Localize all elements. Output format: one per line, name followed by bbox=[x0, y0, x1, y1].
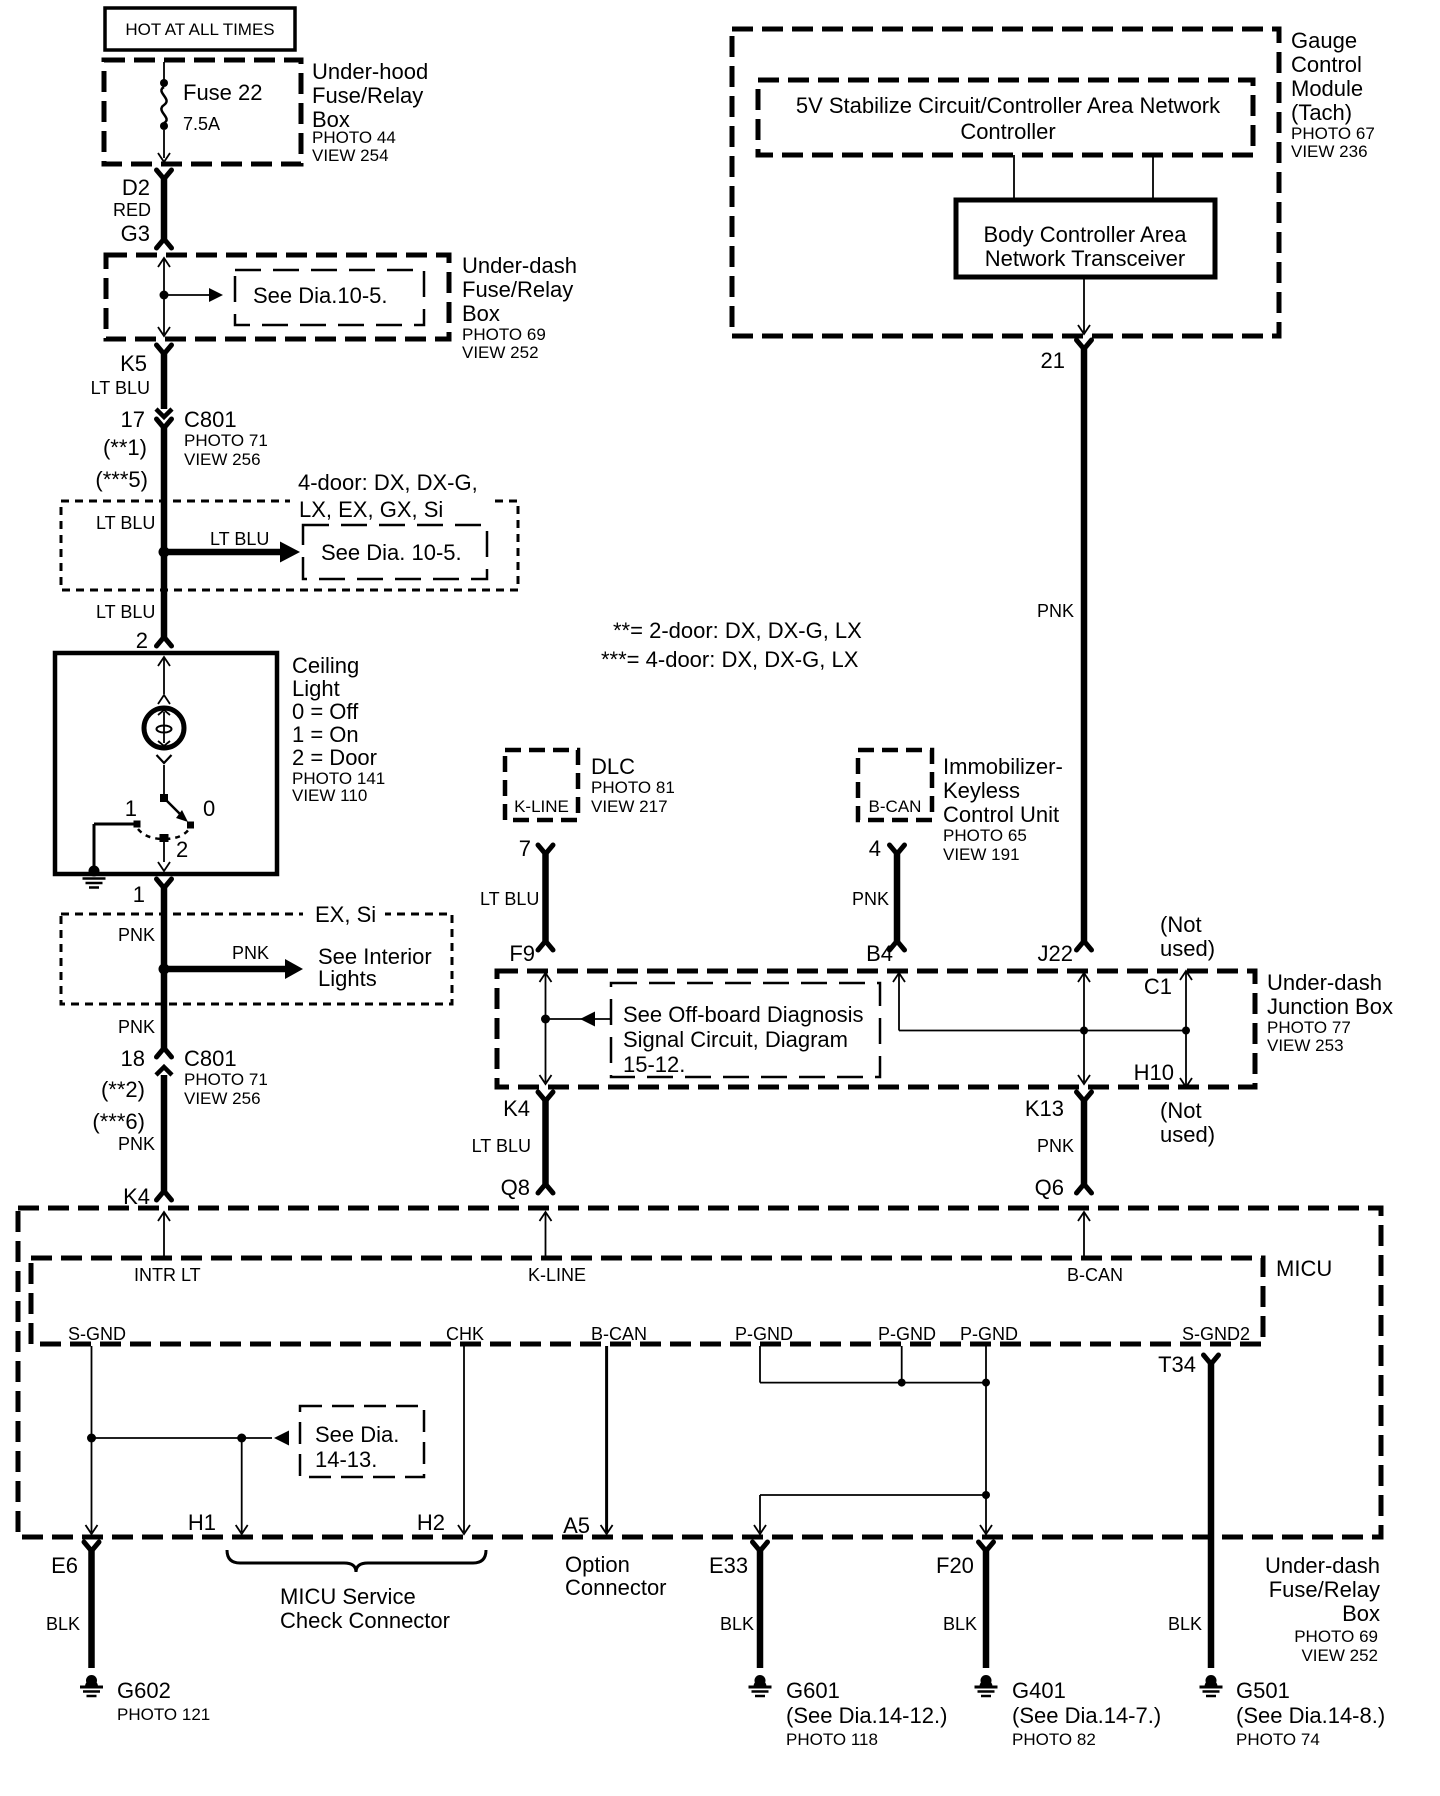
svg-text:Immobilizer-: Immobilizer- bbox=[943, 754, 1063, 779]
svg-text:J22: J22 bbox=[1038, 941, 1073, 966]
svg-text:See Dia.10-5.: See Dia.10-5. bbox=[253, 283, 388, 308]
node at J22 wire bbox=[1080, 1027, 1088, 1035]
MICU box (dashed) bbox=[31, 1258, 1263, 1344]
wire inside under-dash box bbox=[158, 258, 170, 267]
svg-text:LT BLU: LT BLU bbox=[210, 529, 269, 549]
svg-text:VIEW 236: VIEW 236 bbox=[1291, 142, 1368, 161]
svg-text:7.5A: 7.5A bbox=[183, 114, 220, 134]
svg-text:2: 2 bbox=[136, 628, 148, 653]
svg-text:B-CAN: B-CAN bbox=[591, 1324, 647, 1344]
svg-text:MICU: MICU bbox=[1276, 1256, 1332, 1281]
branch arrow LT BLU to See Dia. 10-5. bbox=[164, 549, 280, 556]
svg-text:Option: Option bbox=[565, 1552, 630, 1577]
svg-text:B-CAN: B-CAN bbox=[869, 797, 922, 816]
node P-GND 2 junction bbox=[898, 1379, 906, 1387]
svg-text:See Off-board Diagnosis: See Off-board Diagnosis bbox=[623, 1002, 864, 1027]
switch position 1 wire to internal ground bbox=[94, 823, 137, 826]
node F20 branch bbox=[982, 1491, 990, 1499]
svg-text:F9: F9 bbox=[509, 941, 535, 966]
MICU service check connector brace bbox=[227, 1550, 486, 1572]
svg-text:(Not: (Not bbox=[1160, 1098, 1202, 1123]
svg-text:1: 1 bbox=[125, 796, 137, 821]
wire pin1 PNK below ceiling light bbox=[157, 879, 172, 888]
svg-text:E6: E6 bbox=[51, 1553, 78, 1578]
svg-text:A5: A5 bbox=[563, 1513, 590, 1538]
J22 wire through junction box bbox=[1078, 973, 1090, 982]
K-LINE wire through junction box bbox=[540, 973, 552, 982]
B4 wire inside junction box bbox=[893, 973, 905, 982]
svg-text:4: 4 bbox=[869, 836, 881, 861]
reference box See Dia. 14-13. bbox=[300, 1406, 424, 1477]
svg-text:H10: H10 bbox=[1134, 1060, 1174, 1085]
svg-text:Ceiling: Ceiling bbox=[292, 653, 359, 678]
svg-text:C1: C1 bbox=[1144, 974, 1172, 999]
svg-text:G3: G3 bbox=[121, 221, 150, 246]
svg-text:Keyless: Keyless bbox=[943, 778, 1020, 803]
svg-text:G602: G602 bbox=[117, 1678, 171, 1703]
svg-text:PNK: PNK bbox=[232, 943, 269, 963]
ground G401 bbox=[981, 1675, 992, 1686]
svg-text:(***5): (***5) bbox=[95, 467, 148, 492]
svg-text:Lights: Lights bbox=[318, 966, 377, 991]
under-dash fuse/relay box lower (big dashed) bbox=[18, 1208, 1381, 1537]
wire P-GND 2 bbox=[901, 1346, 903, 1383]
wire K4-Q8 LT BLU bbox=[538, 1092, 553, 1101]
svg-text:Under-dash: Under-dash bbox=[1267, 970, 1382, 995]
svg-text:Fuse/Relay: Fuse/Relay bbox=[462, 277, 573, 302]
svg-text:HOT AT ALL TIMES: HOT AT ALL TIMES bbox=[125, 20, 274, 39]
EX Si option box (dotted) bbox=[61, 914, 452, 1004]
svg-text:PHOTO 82: PHOTO 82 bbox=[1012, 1730, 1096, 1749]
node K-LINE junction bbox=[541, 1015, 550, 1024]
svg-text:BLK: BLK bbox=[1168, 1614, 1202, 1634]
wire transceiver to pin 21 bbox=[1083, 277, 1085, 332]
svg-text:Box: Box bbox=[462, 301, 500, 326]
svg-text:P-GND: P-GND bbox=[735, 1324, 793, 1344]
svg-text:BLK: BLK bbox=[46, 1614, 80, 1634]
immobilizer-keyless control unit box (dashed) bbox=[858, 750, 932, 820]
svg-text:MICU Service: MICU Service bbox=[280, 1584, 416, 1609]
wire B-CAN to A5 option connector bbox=[605, 1346, 608, 1532]
svg-text:Q8: Q8 bbox=[501, 1175, 530, 1200]
svg-text:PHOTO 71: PHOTO 71 bbox=[184, 431, 268, 450]
wire K4 to MICU INTR LT bbox=[158, 1212, 170, 1221]
svg-text:K-LINE: K-LINE bbox=[528, 1265, 586, 1285]
5V stabilize circuit / CAN controller box (dashed) bbox=[758, 80, 1253, 155]
svg-text:LT BLU: LT BLU bbox=[480, 889, 539, 909]
svg-text:K5: K5 bbox=[120, 351, 147, 376]
svg-text:EX, Si: EX, Si bbox=[315, 902, 376, 927]
wire Q6 to MICU B-CAN bbox=[1078, 1212, 1090, 1221]
svg-text:Gauge: Gauge bbox=[1291, 28, 1357, 53]
under-hood fuse/relay box (dashed) bbox=[104, 60, 301, 164]
svg-text:PHOTO 71: PHOTO 71 bbox=[184, 1070, 268, 1089]
branch wire to See Dia 14-13 bbox=[92, 1437, 273, 1439]
junction box internal bus wire bbox=[899, 1030, 1186, 1032]
svg-text:VIEW 253: VIEW 253 bbox=[1267, 1036, 1344, 1055]
svg-text:used): used) bbox=[1160, 936, 1215, 961]
svg-text:K-LINE: K-LINE bbox=[514, 797, 569, 816]
svg-text:PHOTO 121: PHOTO 121 bbox=[117, 1705, 210, 1724]
svg-text:PHOTO 118: PHOTO 118 bbox=[786, 1730, 878, 1749]
svg-text:Under-dash: Under-dash bbox=[1265, 1553, 1380, 1578]
body CAN transceiver box bbox=[956, 200, 1215, 277]
svg-text:(***6): (***6) bbox=[92, 1109, 145, 1134]
fuse 22 7.5A bbox=[163, 62, 165, 80]
svg-text:C801: C801 bbox=[184, 1046, 237, 1071]
svg-text:15-12.: 15-12. bbox=[623, 1052, 685, 1077]
svg-text:LT BLU: LT BLU bbox=[91, 378, 150, 398]
svg-text:G501: G501 bbox=[1236, 1678, 1290, 1703]
branch arrow PNK to See Interior Lights bbox=[164, 966, 285, 973]
wire D2-G3 RED bbox=[157, 170, 172, 179]
ceiling light box bbox=[55, 653, 277, 874]
svg-text:F20: F20 bbox=[936, 1553, 974, 1578]
node junction in under-dash box bbox=[160, 291, 169, 300]
svg-text:PNK: PNK bbox=[118, 1134, 155, 1154]
DLC box (dashed) bbox=[505, 750, 578, 820]
node junction LT BLU branch bbox=[159, 547, 170, 558]
svg-text:Fuse/Relay: Fuse/Relay bbox=[312, 83, 423, 108]
svg-text:14-13.: 14-13. bbox=[315, 1447, 377, 1472]
svg-text:Module: Module bbox=[1291, 76, 1363, 101]
svg-text:PHOTO 81: PHOTO 81 bbox=[591, 778, 675, 797]
svg-text:Junction Box: Junction Box bbox=[1267, 994, 1393, 1019]
svg-text:PHOTO 77: PHOTO 77 bbox=[1267, 1018, 1351, 1037]
svg-text:P-GND: P-GND bbox=[878, 1324, 936, 1344]
svg-text:Control: Control bbox=[1291, 52, 1362, 77]
svg-text:VIEW 252: VIEW 252 bbox=[1301, 1646, 1378, 1665]
svg-text:B4: B4 bbox=[866, 941, 893, 966]
wire P-GND 1 bbox=[759, 1346, 761, 1383]
svg-text:H2: H2 bbox=[417, 1510, 445, 1535]
svg-text:Network Transceiver: Network Transceiver bbox=[985, 246, 1186, 271]
H10 stub (not used) bbox=[1185, 1031, 1187, 1087]
svg-text:Light: Light bbox=[292, 676, 340, 701]
svg-text:PNK: PNK bbox=[118, 1017, 155, 1037]
svg-text:See Dia. 10-5.: See Dia. 10-5. bbox=[321, 540, 462, 565]
svg-text:G601: G601 bbox=[786, 1678, 840, 1703]
reference box See Off-board Diagnosis Signal Circuit Diagram 15-12 bbox=[611, 983, 880, 1077]
wire to H1 bbox=[241, 1438, 243, 1532]
svg-text:(**1): (**1) bbox=[103, 435, 147, 460]
C1 stub (not used) bbox=[1180, 971, 1192, 980]
wire K5-17 LT BLU bbox=[157, 345, 172, 354]
node S-GND branch bbox=[87, 1434, 96, 1443]
wire CHK to H2 bbox=[463, 1346, 465, 1532]
switch position 2 wire to pin 1 bbox=[163, 842, 165, 862]
svg-text:Box: Box bbox=[1342, 1601, 1380, 1626]
svg-text:0 = Off: 0 = Off bbox=[292, 699, 359, 724]
gauge control module box (dashed) bbox=[732, 29, 1279, 336]
svg-text:Control Unit: Control Unit bbox=[943, 802, 1059, 827]
svg-text:**= 2-door: DX, DX-G, LX: **= 2-door: DX, DX-G, LX bbox=[613, 618, 862, 643]
under-dash fuse/relay box upper (dashed) bbox=[106, 255, 449, 339]
wire to E33 bbox=[759, 1495, 761, 1532]
svg-text:PHOTO 74: PHOTO 74 bbox=[1236, 1730, 1320, 1749]
svg-text:D2: D2 bbox=[122, 175, 150, 200]
svg-text:1 = On: 1 = On bbox=[292, 722, 359, 747]
ceiling light switch bbox=[163, 765, 165, 795]
svg-text:B-CAN: B-CAN bbox=[1067, 1265, 1123, 1285]
svg-text:VIEW 252: VIEW 252 bbox=[462, 343, 539, 362]
svg-text:RED: RED bbox=[113, 200, 151, 220]
switch positions dashed arc bbox=[138, 829, 189, 839]
svg-text:VIEW 254: VIEW 254 bbox=[312, 146, 389, 165]
wire Q8 to MICU K-LINE bbox=[540, 1212, 552, 1221]
svg-text:Fuse/Relay: Fuse/Relay bbox=[1269, 1577, 1380, 1602]
svg-text:Connector: Connector bbox=[565, 1575, 667, 1600]
wire 5V box to transceiver left bbox=[1013, 155, 1015, 200]
svg-text:PHOTO 69: PHOTO 69 bbox=[462, 325, 546, 344]
svg-text:(**2): (**2) bbox=[101, 1077, 145, 1102]
svg-text:LT BLU: LT BLU bbox=[96, 513, 155, 533]
svg-text:(See Dia.14-8.): (See Dia.14-8.) bbox=[1236, 1703, 1385, 1728]
ceiling light bulb bbox=[144, 708, 184, 748]
svg-text:C801: C801 bbox=[184, 407, 237, 432]
svg-text:used): used) bbox=[1160, 1122, 1215, 1147]
svg-text:BLK: BLK bbox=[720, 1614, 754, 1634]
svg-text:LT BLU: LT BLU bbox=[472, 1136, 531, 1156]
svg-text:17: 17 bbox=[121, 407, 145, 432]
node H1 branch bbox=[237, 1434, 246, 1443]
node P-GND 3 junction bbox=[982, 1379, 990, 1387]
svg-text:Controller: Controller bbox=[960, 119, 1055, 144]
svg-text:Q6: Q6 bbox=[1035, 1175, 1064, 1200]
svg-text:E33: E33 bbox=[709, 1553, 748, 1578]
wire 21 to J22 PNK bbox=[1077, 340, 1092, 349]
svg-text:CHK: CHK bbox=[446, 1324, 484, 1344]
svg-text:***= 4-door: DX, DX-G, LX: ***= 4-door: DX, DX-G, LX bbox=[601, 647, 859, 672]
P-GND bus wire bbox=[760, 1382, 986, 1384]
svg-text:PHOTO 65: PHOTO 65 bbox=[943, 826, 1027, 845]
svg-text:(See Dia.14-12.): (See Dia.14-12.) bbox=[786, 1703, 947, 1728]
ground G601 bbox=[755, 1675, 766, 1686]
svg-text:LT BLU: LT BLU bbox=[96, 602, 155, 622]
svg-text:PHOTO 69: PHOTO 69 bbox=[1294, 1627, 1378, 1646]
svg-text:Fuse 22: Fuse 22 bbox=[183, 80, 263, 105]
svg-text:18: 18 bbox=[121, 1046, 145, 1071]
svg-text:PNK: PNK bbox=[118, 925, 155, 945]
svg-text:Body Controller Area: Body Controller Area bbox=[984, 222, 1188, 247]
svg-text:Under-hood: Under-hood bbox=[312, 59, 428, 84]
wire K13-Q6 PNK bbox=[1077, 1092, 1092, 1101]
branch arrow to See Dia.10-5. bbox=[164, 294, 209, 296]
ceiling light internal wire top bbox=[158, 657, 170, 666]
svg-text:VIEW 191: VIEW 191 bbox=[943, 845, 1020, 864]
under-dash junction box (dashed) bbox=[497, 971, 1255, 1087]
svg-text:Under-dash: Under-dash bbox=[462, 253, 577, 278]
wire to F20 bbox=[985, 1495, 987, 1532]
svg-text:PHOTO 44: PHOTO 44 bbox=[312, 128, 396, 147]
svg-text:(Tach): (Tach) bbox=[1291, 100, 1352, 125]
svg-text:4-door: DX, DX-G,: 4-door: DX, DX-G, bbox=[298, 470, 478, 495]
svg-text:P-GND: P-GND bbox=[960, 1324, 1018, 1344]
power label box HOT AT ALL TIMES bbox=[105, 8, 295, 50]
reference box See Dia.10-5. bbox=[235, 270, 424, 325]
svg-text:7: 7 bbox=[519, 836, 531, 861]
svg-text:DLC: DLC bbox=[591, 754, 635, 779]
svg-text:K4: K4 bbox=[503, 1096, 530, 1121]
svg-text:2 = Door: 2 = Door bbox=[292, 745, 377, 770]
ground G602 bbox=[86, 1675, 97, 1686]
E33 branch bus wire bbox=[760, 1494, 986, 1496]
4-door DX DX-G LX EX GX Si option box (dotted) bbox=[61, 501, 518, 590]
svg-text:0: 0 bbox=[203, 796, 215, 821]
svg-text:Check Connector: Check Connector bbox=[280, 1608, 450, 1633]
internal ground of ceiling light bbox=[83, 877, 106, 880]
svg-text:PNK: PNK bbox=[852, 889, 889, 909]
node junction PNK branch bbox=[159, 964, 170, 975]
svg-text:VIEW 110: VIEW 110 bbox=[292, 786, 367, 805]
svg-text:See Dia.: See Dia. bbox=[315, 1422, 399, 1447]
ground G501 bbox=[1206, 1675, 1217, 1686]
svg-text:BLK: BLK bbox=[943, 1614, 977, 1634]
svg-text:21: 21 bbox=[1041, 348, 1065, 373]
svg-text:2: 2 bbox=[176, 837, 188, 862]
svg-text:Signal Circuit, Diagram: Signal Circuit, Diagram bbox=[623, 1027, 848, 1052]
svg-text:K13: K13 bbox=[1025, 1096, 1064, 1121]
svg-text:G401: G401 bbox=[1012, 1678, 1066, 1703]
svg-text:S-GND2: S-GND2 bbox=[1182, 1324, 1250, 1344]
svg-text:PHOTO 67: PHOTO 67 bbox=[1291, 124, 1375, 143]
svg-text:(Not: (Not bbox=[1160, 912, 1202, 937]
svg-text:H1: H1 bbox=[188, 1510, 216, 1535]
svg-text:PNK: PNK bbox=[1037, 1136, 1074, 1156]
branch arrow to off-board diagnosis note bbox=[546, 1018, 611, 1020]
svg-text:S-GND: S-GND bbox=[68, 1324, 126, 1344]
wire 2 LT BLU into ceiling light bbox=[161, 552, 168, 637]
svg-text:INTR LT: INTR LT bbox=[134, 1265, 201, 1285]
svg-text:VIEW 256: VIEW 256 bbox=[184, 450, 261, 469]
svg-text:LX, EX, GX, Si: LX, EX, GX, Si bbox=[299, 497, 443, 522]
wire S-GND to E6 bbox=[91, 1346, 93, 1532]
connector C801 pin 17 bbox=[156, 409, 172, 417]
svg-text:PNK: PNK bbox=[1037, 601, 1074, 621]
wire 5V box to transceiver right bbox=[1152, 155, 1154, 200]
svg-text:1: 1 bbox=[133, 882, 145, 907]
svg-text:K4: K4 bbox=[123, 1184, 150, 1209]
svg-text:VIEW 256: VIEW 256 bbox=[184, 1089, 261, 1108]
svg-text:T34: T34 bbox=[1158, 1352, 1196, 1377]
reference box See Dia. 10-5. bbox=[303, 525, 487, 579]
svg-text:VIEW 217: VIEW 217 bbox=[591, 797, 668, 816]
connector C801 pin 18 bbox=[157, 1048, 172, 1057]
wire P-GND 3 bbox=[985, 1346, 987, 1383]
wire P-GND down to E33/F20 bus bbox=[985, 1383, 987, 1495]
node at C1/H10 wire bbox=[1182, 1027, 1190, 1035]
svg-text:(See Dia.14-7.): (See Dia.14-7.) bbox=[1012, 1703, 1161, 1728]
svg-text:5V Stabilize Circuit/Controlle: 5V Stabilize Circuit/Controller Area Net… bbox=[796, 93, 1221, 118]
